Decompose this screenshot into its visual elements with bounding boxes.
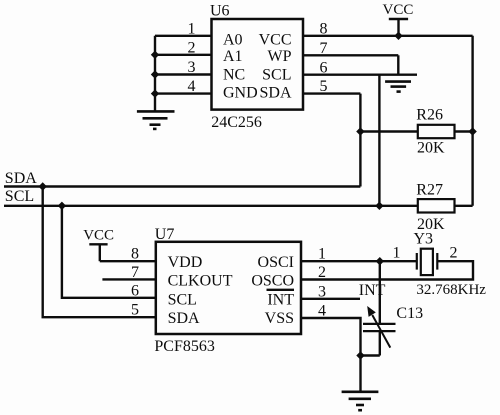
svg-text:R27: R27 <box>416 182 443 199</box>
svg-text:A1: A1 <box>223 48 243 65</box>
power VCC (U7) <box>83 227 114 261</box>
svg-text:4: 4 <box>188 78 196 95</box>
wire U6 pin 5 <box>303 92 360 94</box>
svg-text:20K: 20K <box>417 140 445 157</box>
ground (U6 WP) <box>385 82 411 92</box>
capacitor C13 (trimmer) <box>363 306 396 356</box>
wire U6 pin 1 <box>155 35 212 37</box>
junction VSS / C13 / ground <box>356 351 364 359</box>
wire C13 top lead <box>379 261 381 324</box>
svg-text:WP: WP <box>268 48 292 65</box>
svg-text:INT: INT <box>359 282 386 299</box>
svg-text:2: 2 <box>318 264 326 281</box>
junction SCL / pin6 drop <box>375 202 383 210</box>
svg-text:8: 8 <box>320 20 328 37</box>
svg-text:1: 1 <box>188 20 196 37</box>
svg-text:3: 3 <box>318 283 326 300</box>
wire U6 pin 6 / ground top bar <box>303 73 417 75</box>
svg-text:1: 1 <box>393 245 401 262</box>
svg-text:U7: U7 <box>155 226 175 243</box>
svg-text:1: 1 <box>318 246 326 263</box>
resistor R27 <box>418 199 455 212</box>
wire SCL bus <box>4 205 418 207</box>
svg-text:5: 5 <box>320 78 328 95</box>
wire crystal right to pin 2 <box>301 261 473 279</box>
wire junction to C13 bottom <box>361 354 380 356</box>
svg-text:4: 4 <box>318 302 326 319</box>
IC U7 PCF8563 body <box>156 242 301 334</box>
wire SDA drop to U7 pin5 <box>43 187 156 318</box>
ground (VSS/C13) <box>342 392 379 410</box>
svg-text:2: 2 <box>188 39 196 56</box>
junction VCC / pin8 wire <box>394 32 402 40</box>
junction SDA bus / U7 drop <box>39 182 47 190</box>
junction U6 pin2 <box>151 51 159 59</box>
svg-text:VCC: VCC <box>259 32 292 49</box>
svg-text:PCF8563: PCF8563 <box>154 338 214 355</box>
wire R26 right <box>455 130 473 132</box>
svg-text:A0: A0 <box>223 32 243 49</box>
svg-text:5: 5 <box>131 302 139 319</box>
svg-text:SCL: SCL <box>168 292 197 309</box>
svg-text:6: 6 <box>131 282 139 299</box>
junction R26 right / rail <box>468 127 476 135</box>
wire U7 pin 1 OSCI <box>301 260 417 262</box>
wire VSS junction to ground <box>359 356 361 392</box>
svg-text:VDD: VDD <box>168 254 203 271</box>
wire U7 pin 3 INT stub <box>301 298 360 300</box>
junction SCL bus / U7 drop <box>58 202 66 210</box>
svg-text:CLKOUT: CLKOUT <box>168 272 233 289</box>
wire U6 pin6 drop to SCL <box>378 75 380 206</box>
svg-text:VCC: VCC <box>83 227 114 243</box>
wire U6 pin 2 <box>155 54 212 56</box>
svg-text:SCL: SCL <box>5 188 34 205</box>
wire SCL drop to U7 pin6 <box>62 206 156 298</box>
svg-text:INT: INT <box>267 292 294 309</box>
wire R27 right <box>455 205 473 207</box>
wire SDA bus <box>4 185 360 187</box>
crystal Y3 <box>417 249 438 275</box>
ground (U6 address pins) <box>137 111 175 128</box>
svg-text:C13: C13 <box>396 305 423 322</box>
svg-text:32.768KHz: 32.768KHz <box>416 282 486 298</box>
svg-text:7: 7 <box>131 264 139 281</box>
svg-text:8: 8 <box>131 246 139 263</box>
svg-text:3: 3 <box>188 59 196 76</box>
svg-text:SCL: SCL <box>262 66 291 83</box>
wire U6 input common rail <box>154 36 156 112</box>
IC U6 24C256 body <box>212 19 304 110</box>
junction R26 left tap <box>356 127 364 135</box>
junction OSCI / C13 <box>376 257 384 265</box>
wire U7 pin 4 VSS <box>301 318 361 356</box>
svg-text:U6: U6 <box>210 3 230 20</box>
svg-text:SDA: SDA <box>5 170 37 187</box>
wire U6 pin 3 <box>155 73 212 75</box>
svg-text:GND: GND <box>223 84 258 101</box>
wire U6 pin 8 to right rail <box>303 35 473 37</box>
svg-text:6: 6 <box>320 59 328 76</box>
svg-text:24C256: 24C256 <box>211 114 262 131</box>
svg-text:Y3: Y3 <box>414 231 434 248</box>
resistor R26 <box>418 125 455 138</box>
svg-text:OSCO: OSCO <box>251 272 294 289</box>
svg-text:2: 2 <box>450 245 458 262</box>
wire U6 pin 7 <box>303 54 398 56</box>
svg-text:R26: R26 <box>416 107 443 124</box>
wire pin7 drop to ground <box>397 55 399 74</box>
svg-text:OSCI: OSCI <box>258 254 294 271</box>
svg-text:SDA: SDA <box>259 84 291 101</box>
svg-text:VCC: VCC <box>383 2 414 18</box>
junction U6 pin3 <box>151 70 159 78</box>
wire R26 left <box>360 130 417 132</box>
wire pin5 drop to SDA bus <box>359 94 361 187</box>
junction U6 pin4 <box>151 89 159 97</box>
svg-text:NC: NC <box>223 66 245 83</box>
wire U6 pin 4 <box>155 92 212 94</box>
svg-text:SDA: SDA <box>168 310 200 327</box>
wire U7 pin 7 stub <box>102 278 155 280</box>
svg-text:VSS: VSS <box>265 310 294 327</box>
power VCC (top) <box>383 2 414 36</box>
wire right pull-up rail <box>471 36 473 206</box>
wire U7 pin 8 <box>100 260 156 262</box>
svg-text:7: 7 <box>320 40 328 57</box>
